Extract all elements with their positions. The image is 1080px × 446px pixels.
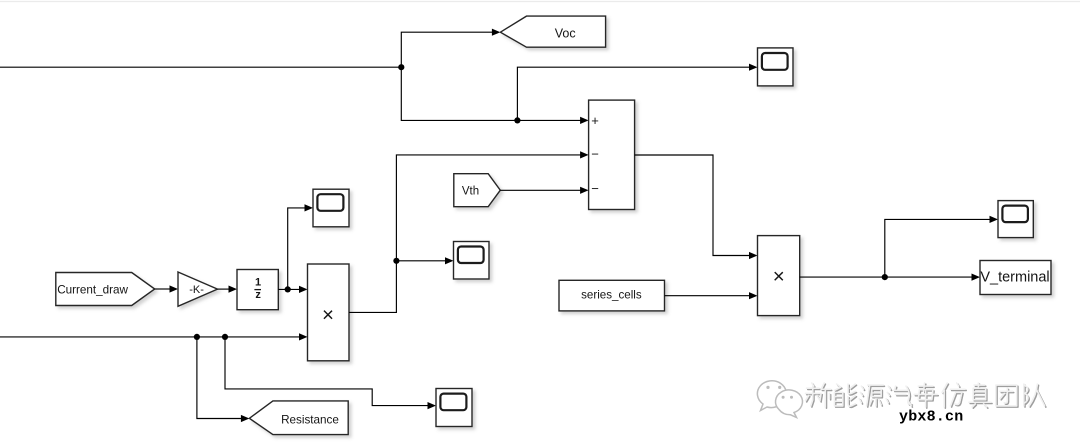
wire: Unit Delay output to Product U2 input 1	[278, 286, 307, 293]
wire: node J3 up and right to Scope (right)	[885, 216, 998, 277]
faint top border line	[0, 1, 1080, 3]
sum block U1 (+ - -)	[589, 100, 635, 209]
scope (top, Voc monitor)	[758, 48, 794, 86]
scope (bottom, resistance monitor)	[436, 389, 472, 427]
wire: Product U2 output up to Sum input 2	[349, 151, 589, 312]
unit delay Z1 (1/z)	[237, 270, 278, 310]
goto tag Resistance	[249, 401, 348, 435]
scope (right, V_terminal monitor)	[998, 201, 1033, 238]
svg-text:z: z	[255, 289, 261, 301]
product U3 (x)	[758, 236, 800, 316]
wire: node J2 up and right to Scope (top right)	[517, 64, 757, 121]
node J5 (branch junction to Resistance goto)	[194, 334, 200, 340]
svg-text:+: +	[591, 113, 599, 128]
svg-text:×: ×	[322, 303, 334, 326]
wire: Product U3 output to Outport V_terminal	[800, 274, 980, 281]
wire: net Voc from left edge to node J1	[0, 66, 401, 68]
outport V_terminal	[980, 261, 1051, 295]
svg-text:ybx8.cn: ybx8.cn	[899, 408, 963, 425]
wire: node J1 up to Goto tag Voc	[401, 29, 500, 68]
wire: node J6 down and right to Scope (bottom)	[225, 337, 436, 409]
node J7 (branch junction to Scope)	[393, 258, 399, 264]
svg-text:Voc: Voc	[555, 27, 576, 41]
scope (middle, voltage-drop monitor)	[454, 242, 490, 280]
wire: Current_draw tag to Gain	[155, 285, 178, 292]
node J2 (branch junction to Scope)	[514, 117, 520, 123]
from tag Vth	[454, 174, 501, 207]
svg-text:−: −	[591, 147, 599, 162]
watermark WeChat logo	[757, 381, 802, 418]
wire: node J4 up and right to Scope (left)	[288, 204, 313, 289]
node J3 (branch junction to Scope)	[882, 274, 888, 280]
svg-text:−: −	[591, 181, 599, 196]
svg-text:series_cells: series_cells	[581, 288, 642, 301]
wire: Vth tag to Sum input 3	[500, 187, 588, 194]
from tag Current_draw	[56, 273, 155, 306]
wire: Sum output right-down to Product U3 input 1	[635, 155, 758, 259]
constant series_cells	[559, 280, 665, 311]
wire: node J1 down and right to Sum input 1	[401, 67, 588, 124]
wire: Gain to Unit Delay	[218, 286, 238, 293]
svg-text:Vth: Vth	[462, 185, 479, 197]
wire: net Resistance_in from left edge to Product U2 input 2	[0, 333, 308, 340]
node J6 (branch junction to Scope)	[222, 334, 228, 340]
wire: node J5 down to Goto tag Resistance	[197, 337, 250, 422]
watermark ybx8.cn	[899, 408, 963, 425]
svg-text:1: 1	[255, 277, 261, 289]
product U2 (x)	[308, 264, 350, 361]
svg-text:V_terminal: V_terminal	[980, 270, 1049, 286]
wire: series_cells to Product U3 input 2	[665, 292, 758, 299]
svg-text:Resistance: Resistance	[281, 413, 339, 426]
node J1 (branch junction on Voc net)	[398, 64, 404, 70]
goto tag Voc	[500, 16, 605, 47]
gain G1 (-K-)	[178, 272, 218, 306]
svg-text:×: ×	[773, 265, 785, 288]
watermark text (Chinese, embossed)	[806, 383, 1046, 408]
wire: node J7 right to Scope (middle)	[396, 257, 453, 264]
scope (left, current monitor)	[313, 189, 349, 227]
svg-text:Current_draw: Current_draw	[57, 283, 128, 296]
svg-text:-K-: -K-	[189, 284, 204, 296]
node J4 (branch junction to Scope)	[285, 286, 291, 292]
